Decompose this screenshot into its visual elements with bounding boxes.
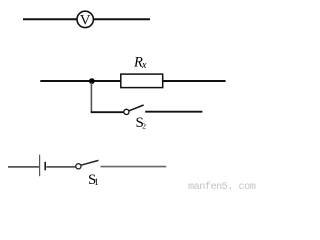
- wire after S1 to right: [101, 166, 167, 168]
- wire voltmeter to top-right: [93, 18, 150, 20]
- node junction dot: [89, 78, 95, 84]
- wire bottom-left to battery: [8, 166, 40, 168]
- svg-text:1: 1: [94, 177, 99, 187]
- wire middle-left to resistor: [40, 80, 121, 82]
- svg-text:x: x: [141, 60, 147, 71]
- wire branch vertical from junction: [90, 83, 92, 113]
- switch S1: [76, 160, 99, 169]
- wire battery to switch S1: [46, 166, 76, 168]
- svg-text:manfen5. com: manfen5. com: [188, 181, 256, 191]
- battery short plate: [44, 162, 46, 171]
- label Rx: [133, 55, 147, 72]
- wire resistor to middle-right: [163, 80, 226, 82]
- label S1: [88, 172, 99, 188]
- switch S2: [124, 105, 144, 115]
- wire branch horizontal to switch S2: [91, 111, 124, 113]
- battery long plate: [39, 155, 41, 177]
- label S2: [136, 115, 147, 131]
- wire top-left to voltmeter: [23, 18, 77, 20]
- voltmeter V: [77, 11, 93, 28]
- resistor Rx: [121, 74, 163, 88]
- svg-text:V: V: [80, 13, 91, 29]
- svg-text:2: 2: [142, 121, 146, 130]
- wire after S2 to right: [145, 111, 202, 113]
